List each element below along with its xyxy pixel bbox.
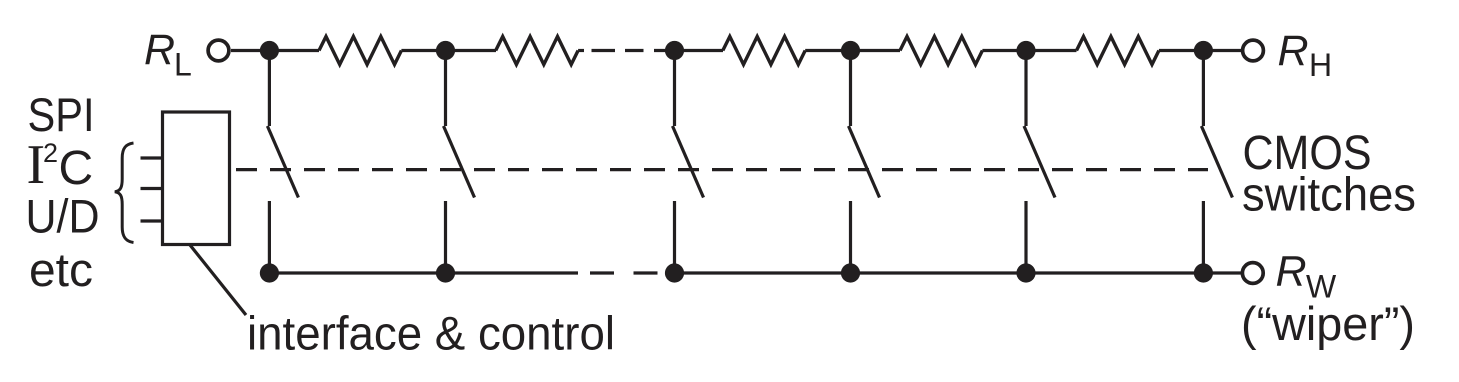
svg-text:R: R xyxy=(144,26,175,74)
terminal RW open circle xyxy=(1242,263,1263,284)
leader line from box to label xyxy=(190,245,246,315)
svg-text:R: R xyxy=(1278,27,1309,75)
node A3 top xyxy=(665,41,684,60)
terminal RL open circle xyxy=(208,40,229,61)
pin stub I2C xyxy=(141,187,163,190)
node B6 bottom xyxy=(1194,263,1213,282)
pin stub SPI xyxy=(141,156,163,159)
resistor R4 xyxy=(900,37,982,65)
brace grouping inputs xyxy=(115,143,134,243)
resistor R2 xyxy=(496,37,578,65)
svg-text:switches: switches xyxy=(1242,168,1416,221)
node B1 bottom xyxy=(260,263,279,282)
switch S4 xyxy=(849,51,880,274)
node A1 top xyxy=(260,41,279,60)
label RL xyxy=(144,26,192,83)
interface & control box xyxy=(163,112,230,245)
node B2 bottom xyxy=(436,263,455,282)
label I2C xyxy=(27,134,94,196)
wire top rail segment node B to R4 xyxy=(805,49,900,52)
wire bottom rail dashed continuation xyxy=(590,271,658,274)
wire top rail segment through node B xyxy=(666,49,723,52)
switch S5 xyxy=(1024,51,1055,274)
label RW xyxy=(1276,248,1338,305)
wire top rail segment to terminal RH xyxy=(1159,49,1243,52)
wire top rail dashed continuation xyxy=(592,49,667,52)
wire top rail segment node A to R2 xyxy=(401,49,496,52)
svg-text:H: H xyxy=(1309,47,1332,83)
terminal RH open circle xyxy=(1243,40,1264,61)
resistor R3 xyxy=(723,37,805,65)
svg-text:R: R xyxy=(1276,248,1307,296)
resistor R1 xyxy=(319,37,401,65)
label CMOS switches xyxy=(1242,127,1416,221)
svg-text:C: C xyxy=(59,142,94,195)
svg-text:2: 2 xyxy=(43,138,58,168)
svg-text:etc: etc xyxy=(29,243,93,296)
svg-text:L: L xyxy=(174,47,192,83)
wire stub after R2 xyxy=(578,49,584,52)
wire bottom rail left section xyxy=(269,271,578,274)
node B4 bottom xyxy=(841,263,860,282)
svg-text:(“wiper”): (“wiper”) xyxy=(1241,297,1415,350)
switch S6 xyxy=(1201,51,1232,274)
switch S2 xyxy=(444,51,475,274)
resistor R5 xyxy=(1077,37,1159,65)
control bus dashed line xyxy=(236,168,1208,171)
node A2 top xyxy=(436,41,455,60)
wire top rail segment node C to R5 xyxy=(982,49,1076,52)
node A5 top xyxy=(1016,41,1035,60)
node A4 top xyxy=(841,41,860,60)
node B3 bottom xyxy=(665,263,684,282)
svg-text:U/D: U/D xyxy=(26,190,100,243)
wire top rail segment from terminal RL to node A xyxy=(231,49,319,52)
wire bottom rail right section to terminal RW xyxy=(666,271,1242,274)
switch S3 xyxy=(673,51,704,274)
label RH xyxy=(1278,27,1333,83)
switch S1 xyxy=(267,51,298,274)
node A6 top xyxy=(1194,41,1213,60)
svg-text:interface & control: interface & control xyxy=(247,307,615,360)
node B5 bottom xyxy=(1016,263,1035,282)
pin stub U/D xyxy=(141,219,163,222)
